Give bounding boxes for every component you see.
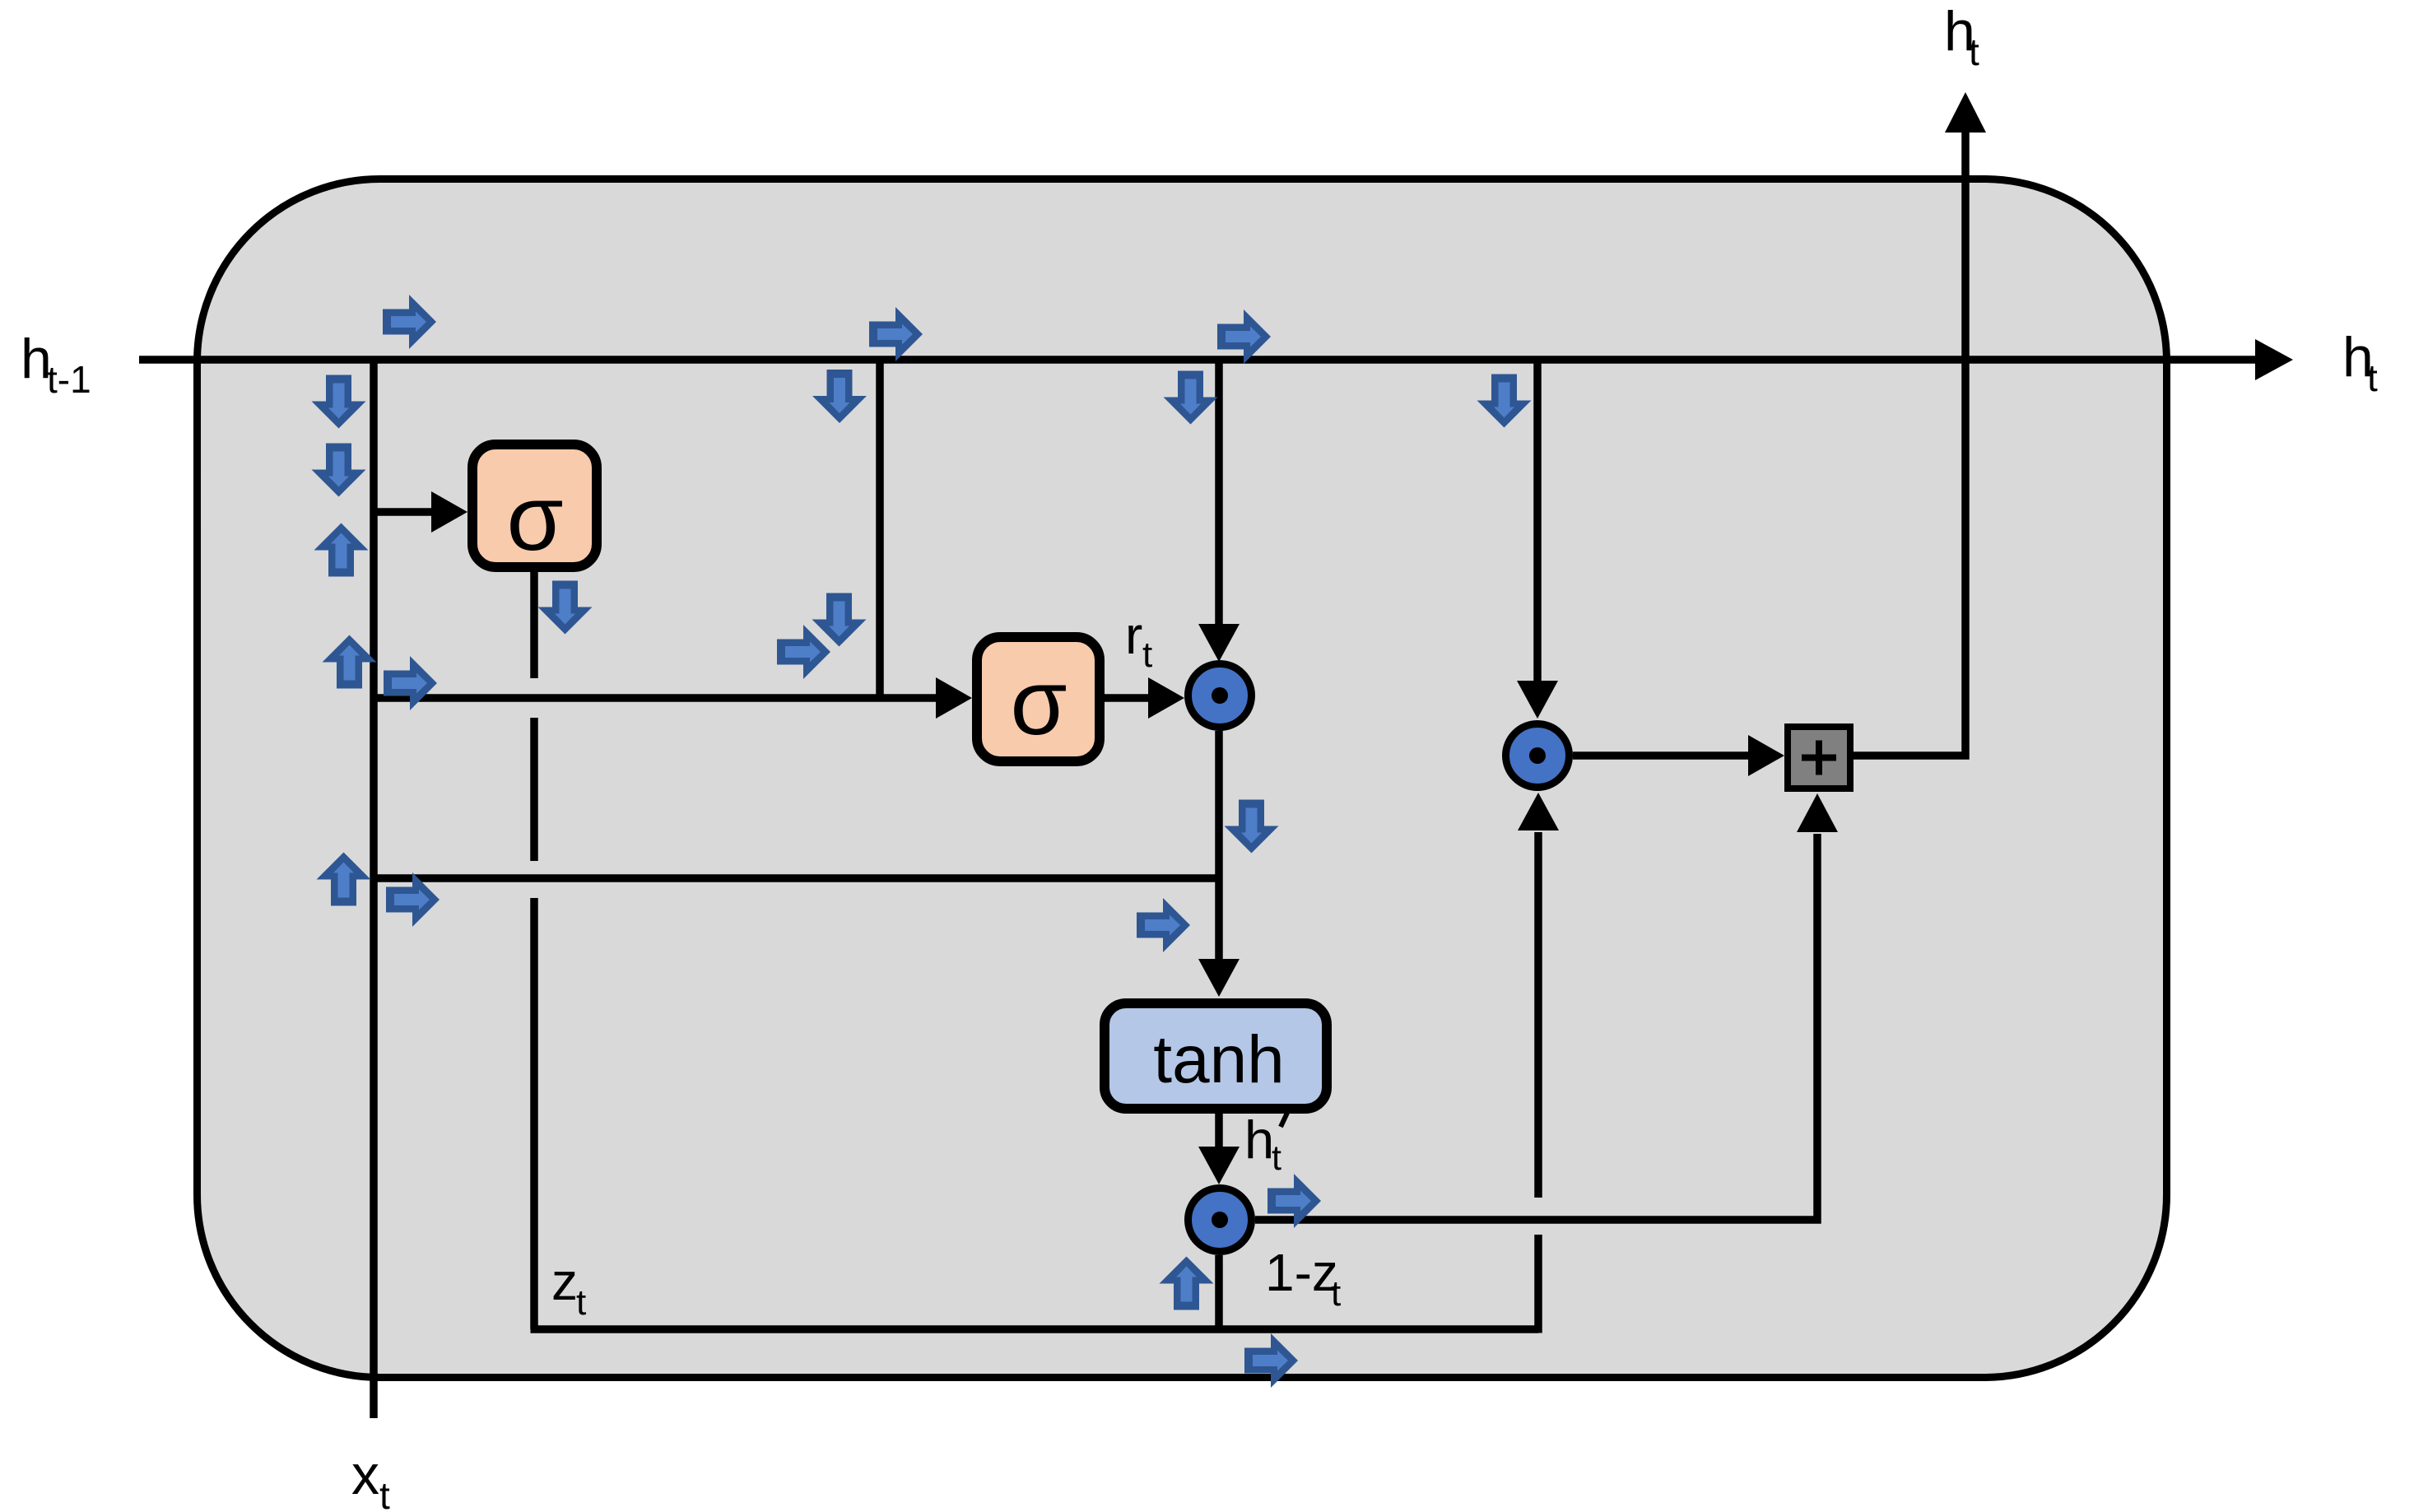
wire x(t) vertical (370, 360, 378, 1418)
blue flow arrow (538, 581, 593, 635)
svg-text:t: t (576, 1282, 586, 1323)
wire (1-z) up from z-line into h' multiplier (1215, 1255, 1223, 1329)
multiplier z x h (circle-dot) (1506, 724, 1570, 788)
adder (+) box (1788, 727, 1850, 789)
svg-text:t-1: t-1 (47, 358, 91, 401)
wire z(t) from sigma down with crossing gaps (530, 572, 538, 1329)
blue flow arrow (812, 593, 867, 647)
blue flow arrow (317, 853, 371, 906)
blue flow arrow (312, 375, 366, 429)
wire z-multiplier to adder (1573, 751, 1748, 760)
svg-text:tanh: tanh (1153, 1022, 1285, 1097)
blue flow arrow (1160, 1257, 1214, 1310)
blue flow arrow (1244, 1333, 1298, 1388)
svg-text:t: t (2367, 356, 2378, 399)
wire x(t) branch into tanh junction (374, 874, 1219, 882)
wire z(t) horizontal bottom (531, 1325, 1539, 1333)
svg-text:t: t (1142, 635, 1152, 675)
arrowhead h(t) right (2255, 339, 2293, 380)
wire h(t-1) down into z multiplier (1533, 360, 1542, 682)
wire h(t) output up (from adder corner) (1854, 133, 1965, 756)
svg-text:t: t (1331, 1273, 1341, 1314)
blue flow arrow (1137, 898, 1190, 952)
blue flow arrow (869, 307, 923, 361)
wire into update gate sigma (374, 508, 431, 516)
svg-text:1-z: 1-z (1265, 1243, 1338, 1302)
svg-text:x: x (351, 1444, 379, 1506)
blue flow arrow (1267, 1174, 1321, 1228)
wire from r-multiplier down into tanh (1215, 731, 1223, 961)
reset gate sigma box (r gate) (977, 637, 1100, 761)
svg-text:z: z (551, 1252, 578, 1311)
GRU cell body (rounded rectangle) (198, 179, 2167, 1378)
tanh box (1105, 1003, 1327, 1109)
blue flow arrow (1477, 375, 1532, 428)
arrowhead h(t) up (1945, 92, 1986, 133)
update gate sigma box (z gate) (472, 444, 597, 567)
wire x(t) branch to reset gate (374, 694, 936, 702)
wire h(t-1) down into r multiplier (1215, 360, 1223, 626)
svg-text:h: h (1244, 1110, 1274, 1170)
wire z(t) up to multiplier with crossing gap (1534, 832, 1542, 1333)
blue flow arrow (386, 872, 440, 927)
svg-text:r: r (1125, 606, 1142, 665)
blue flow arrow (1164, 371, 1218, 425)
blue flow arrow (1225, 800, 1279, 854)
blue flow arrow (314, 523, 369, 577)
blue flow arrow (384, 656, 437, 710)
wire h(t-1) down to reset gate input (876, 360, 884, 698)
svg-text:t: t (1272, 1138, 1281, 1178)
wire h(t-1) -> h(t) horizontal line (139, 356, 2255, 364)
svg-text:σ: σ (506, 467, 563, 570)
blue flow arrow (383, 295, 436, 349)
wire r(t) from sigma to multiplier (1105, 694, 1148, 702)
svg-text:t: t (379, 1474, 390, 1512)
multiplier r x h (circle-dot) (1188, 664, 1252, 728)
multiplier h'(t) x (1-z(t)) (circle-dot) (1188, 1189, 1252, 1252)
blue flow arrow (777, 625, 830, 679)
svg-text:σ: σ (1010, 651, 1067, 754)
blue flow arrow (812, 370, 867, 423)
svg-text:t: t (1969, 30, 1979, 73)
blue flow arrow (312, 444, 366, 497)
blue flow arrow (1217, 309, 1271, 364)
wire product to adder: right then up (1255, 834, 1817, 1220)
blue flow arrow (323, 635, 377, 689)
wire tanh output h'(t) (1215, 1114, 1223, 1148)
